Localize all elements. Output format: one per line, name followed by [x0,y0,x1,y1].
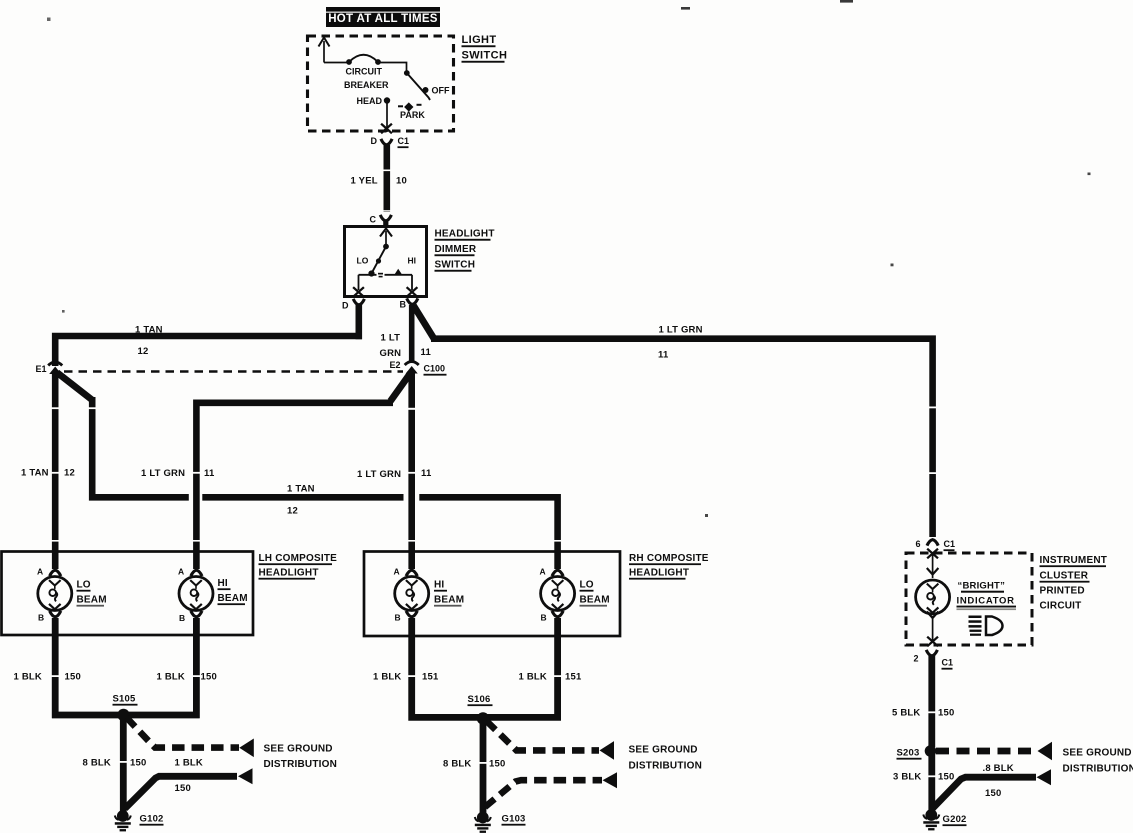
speck mid right [891,264,894,267]
svg-text:12: 12 [64,468,75,479]
svg-text:D: D [371,136,378,146]
connector cup 2 [926,650,937,656]
cluster internal wire to indicator [927,553,939,578]
connector cup B at RH HI [406,611,417,617]
wire HEAD to connector D [386,104,388,133]
wire 1 TAN lower run right segment to RH LO beam [419,497,557,569]
svg-text:DISTRIBUTION: DISTRIBUTION [1063,764,1133,775]
wire E2 branch diagonal to LH HI run [391,373,411,401]
wire E1 down to LH LO beam [52,374,59,569]
svg-text:G202: G202 [943,814,967,825]
svg-text:150: 150 [175,783,191,794]
svg-text:C1: C1 [944,539,956,549]
dimmer LO output drop to D [358,275,360,290]
svg-text:LO: LO [580,580,594,591]
off-page arrow [239,739,254,758]
wire 1 TAN horizontal run [55,336,362,366]
label LO BEAM [580,580,610,607]
svg-text:1 LT: 1 LT [381,333,401,344]
LH composite headlight box [2,552,254,636]
speck left [62,310,65,313]
svg-text:1 BLK: 1 BLK [14,672,42,683]
label RH COMPOSITE HEADLIGHT [629,553,709,580]
svg-text:150: 150 [65,672,81,683]
junction S106 [477,712,489,724]
arrow crossing light switch border [381,124,392,134]
connector cup A at LH LO [50,570,61,576]
svg-text:PARK: PARK [400,110,425,120]
arrow crossing border at D [353,287,364,297]
svg-text:1 TAN: 1 TAN [21,468,49,479]
connector cup D [353,299,364,305]
wire LH HI beam B down [124,618,202,718]
dimmer HI output drop to B [411,275,413,290]
banner HOT AT ALL TIMES [326,7,440,27]
svg-text:A: A [394,567,400,577]
headlight dimmer switch box [345,227,427,297]
svg-text:A: A [37,567,43,577]
svg-text:B: B [38,613,44,623]
RH composite headlight box [364,552,620,637]
label SEE GROUND DISTRIBUTION [1063,748,1133,775]
wire horizontal run to LH HI beam [196,403,393,569]
svg-text:151: 151 [422,672,439,683]
solid ground distribution branch 1 BLK 150 [125,776,237,808]
svg-text:1 BLK: 1 BLK [157,672,185,683]
svg-text:1 LT GRN: 1 LT GRN [357,469,401,480]
svg-text:E1: E1 [36,364,47,374]
svg-text:HEADLIGHT: HEADLIGHT [259,568,319,579]
junction S203 [925,745,937,757]
lamp RH LO BEAM [541,577,575,611]
instrument cluster box (dashed) [906,553,1032,645]
connector cup C [380,215,391,226]
svg-text:SWITCH: SWITCH [435,260,476,271]
svg-text:S105: S105 [113,694,137,705]
off-page arrow [600,741,615,760]
label HEADLIGHT DIMMER SWITCH [435,229,495,272]
svg-text:150: 150 [130,758,146,769]
svg-text:11: 11 [421,468,432,479]
lamp LH HI BEAM [179,577,213,611]
svg-text:10: 10 [396,176,407,187]
connector cup A at RH LO [552,570,563,576]
dimmer wiper arm on LO [368,247,386,277]
contact HEAD [357,96,391,106]
lamp RH HI BEAM [395,577,429,611]
svg-text:G103: G103 [502,814,526,825]
svg-text:B: B [400,300,407,310]
wire E2 down to RH HI beam [408,371,415,569]
svg-text:DIMMER: DIMMER [435,244,477,255]
light switch feed arrow [319,38,330,63]
svg-text:1 TAN: 1 TAN [135,325,163,336]
node E1 splice connector [48,362,62,374]
svg-text:HI: HI [218,578,228,589]
svg-text:HEADLIGHT: HEADLIGHT [629,568,689,579]
svg-text:1 BLK: 1 BLK [175,758,203,769]
svg-text:CIRCUIT: CIRCUIT [346,67,383,77]
connector cup B at RH LO [552,611,563,617]
lamp LH LO BEAM [38,577,72,611]
svg-text:BREAKER: BREAKER [344,80,389,90]
headlight beam icon [969,616,1003,636]
wire 3 BLK 150 down to G202 [927,751,937,811]
speck right upper [1088,173,1091,176]
svg-text:SWITCH: SWITCH [462,50,508,62]
wire 8 BLK 150 down to G103 [478,719,488,816]
svg-text:C: C [370,215,377,225]
svg-text:DISTRIBUTION: DISTRIBUTION [629,761,703,772]
svg-text:11: 11 [421,347,432,358]
wire 1 TAN lower run middle segment [202,494,403,501]
junction S105 [117,709,129,721]
svg-text:.8 BLK: .8 BLK [983,763,1014,774]
svg-text:INSTRUMENT: INSTRUMENT [1040,555,1108,566]
label BRIGHT INDICATOR [957,581,1017,611]
svg-text:BEAM: BEAM [77,595,107,606]
svg-text:BEAM: BEAM [580,595,610,606]
connector cup A at LH HI [191,570,202,576]
svg-text:CIRCUIT: CIRCUIT [1040,601,1082,612]
svg-text:150: 150 [985,788,1001,799]
label LIGHT SWITCH [462,34,508,63]
svg-text:HOT AT ALL TIMES: HOT AT ALL TIMES [328,13,438,25]
svg-text:1 LT GRN: 1 LT GRN [141,468,185,479]
label CIRCUIT BREAKER [344,67,389,91]
ground G102 [115,810,131,831]
wire D down to 1 TAN run [355,305,362,339]
wire RH LO beam B down [483,618,563,721]
dashed ground distribution branch from S105 [127,718,240,748]
splice S105 label [113,694,138,706]
svg-text:150: 150 [489,759,505,770]
svg-text:“BRIGHT”: “BRIGHT” [958,581,1006,592]
ground G202 [923,809,939,830]
svg-text:PRINTED: PRINTED [1040,586,1085,597]
wire RH HI beam B down [407,618,484,721]
svg-text:1 BLK: 1 BLK [519,672,547,683]
connector cup D [381,139,392,145]
arrow crossing cluster border bottom [927,637,938,647]
label HI BEAM [434,580,464,607]
svg-text:SEE GROUND: SEE GROUND [629,745,698,756]
label LO BEAM [77,580,107,607]
wire 5 BLK 150 from pin 2 to S203 [927,656,937,747]
label C1 [944,539,956,551]
wire B diagonal to long 1 LT GRN run [414,306,435,339]
svg-text:C100: C100 [424,364,446,374]
svg-text:HEAD: HEAD [357,96,383,106]
svg-text:HI: HI [408,256,417,266]
wire 1 YEL 10 [382,145,392,212]
off-page arrow [1038,742,1053,761]
svg-text:GRN: GRN [380,348,402,359]
speck top edge right [840,0,853,3]
svg-text:150: 150 [201,672,217,683]
svg-text:11: 11 [204,468,215,479]
svg-text:6: 6 [916,539,921,549]
svg-text:B: B [541,613,547,623]
arrow crossing cluster border top [927,549,938,559]
dimmer contact bar [359,273,413,278]
svg-text:A: A [540,567,546,577]
svg-text:LIGHT: LIGHT [462,34,497,46]
svg-text:1 BLK: 1 BLK [373,672,401,683]
svg-text:E2: E2 [390,360,401,370]
label SEE GROUND DISTRIBUTION [629,745,703,772]
svg-text:BEAM: BEAM [434,595,464,606]
dimmer input arrow from C [380,229,392,250]
label SEE GROUND DISTRIBUTION [264,744,338,771]
svg-text:5 BLK: 5 BLK [892,708,920,719]
svg-text:S106: S106 [468,694,491,705]
contact HI triangle [395,269,403,275]
svg-text:BEAM: BEAM [218,593,248,604]
svg-text:1 YEL: 1 YEL [351,176,378,187]
wire 1 LT GRN long horizontal run to cluster [431,339,933,537]
svg-text:HI: HI [434,580,444,591]
connector cup 6 [927,540,938,546]
svg-text:3 BLK: 3 BLK [893,772,921,783]
label G103 [502,814,526,826]
svg-text:LH COMPOSITE: LH COMPOSITE [259,553,338,564]
off-page arrow [603,772,618,788]
speck above banner right [681,7,690,10]
label HI BEAM [218,578,248,605]
speck left mid [705,514,708,517]
svg-text:A: A [178,567,184,577]
node E2 splice connector C100 [405,362,419,374]
svg-text:HEADLIGHT: HEADLIGHT [435,229,495,240]
label G102 [140,814,164,826]
svg-text:SEE GROUND: SEE GROUND [1063,748,1132,759]
connector cup B at LH LO [50,611,61,617]
label C100 [424,364,447,376]
svg-text:2: 2 [914,654,919,664]
speck top-left [47,18,51,22]
svg-text:8 BLK: 8 BLK [443,759,471,770]
label LH COMPOSITE HEADLIGHT [259,553,338,580]
off-page arrow [238,768,253,784]
contact PARK [398,102,425,120]
svg-text:G102: G102 [140,814,164,825]
svg-text:1 TAN: 1 TAN [287,484,315,495]
wire 8 BLK 150 down to G102 [118,715,128,813]
connector cup B at LH HI [191,611,202,617]
svg-text:CLUSTER: CLUSTER [1040,571,1089,582]
svg-text:12: 12 [287,506,298,517]
svg-text:RH COMPOSITE: RH COMPOSITE [629,553,709,564]
dashed connector line E1 to E2 [64,370,403,372]
arrow crossing border at B [407,287,418,297]
svg-text:OFF: OFF [432,86,450,96]
switch wiper to OFF [378,63,430,101]
label INSTRUMENT CLUSTER PRINTED CIRCUIT [1040,555,1108,612]
cluster internal wire from indicator [927,612,939,643]
light switch box (dashed) [308,36,454,131]
connector cup B [407,298,418,304]
svg-text:LO: LO [357,256,369,266]
svg-text:SEE GROUND: SEE GROUND [264,744,333,755]
svg-text:B: B [395,613,401,623]
wire down-right jog to 1 TAN lower run [92,397,189,497]
svg-text:151: 151 [565,672,582,683]
wire B down to E2 [409,305,415,362]
splice S106 label [468,694,493,706]
svg-text:C1: C1 [398,136,410,146]
svg-text:S203: S203 [897,748,920,759]
svg-text:D: D [342,301,349,311]
svg-text:150: 150 [938,772,954,783]
label G202 [943,814,967,826]
svg-text:INDICATOR: INDICATOR [957,596,1015,607]
svg-text:12: 12 [138,346,149,357]
circuit breaker CB [324,55,381,65]
svg-text:1 LT GRN: 1 LT GRN [659,325,703,336]
wire E1 branch diagonal [57,373,92,401]
wire LH LO beam B down [50,618,124,718]
connector C1 label [398,136,410,148]
ground G103 [475,812,491,833]
solid ground distribution branch .8 BLK 150 [933,777,1037,808]
svg-text:C1: C1 [942,658,954,668]
svg-text:8 BLK: 8 BLK [83,758,111,769]
dashed ground distribution branch 2 from G103 riser [485,780,602,807]
svg-text:150: 150 [938,708,954,719]
svg-text:LO: LO [77,580,91,591]
dashed ground distribution branch from S203 [936,748,1037,755]
off-page arrow [1037,769,1052,785]
scan notch ticks on vertical wires [50,407,938,542]
svg-text:DISTRIBUTION: DISTRIBUTION [264,759,338,770]
svg-text:B: B [179,613,185,623]
dashed ground distribution branch from S106 [487,721,600,750]
connector cup A at RH HI [406,570,417,576]
lamp BRIGHT indicator [916,580,950,614]
svg-text:11: 11 [658,350,669,361]
splice S203 label [897,748,922,760]
label C1 [942,658,954,670]
